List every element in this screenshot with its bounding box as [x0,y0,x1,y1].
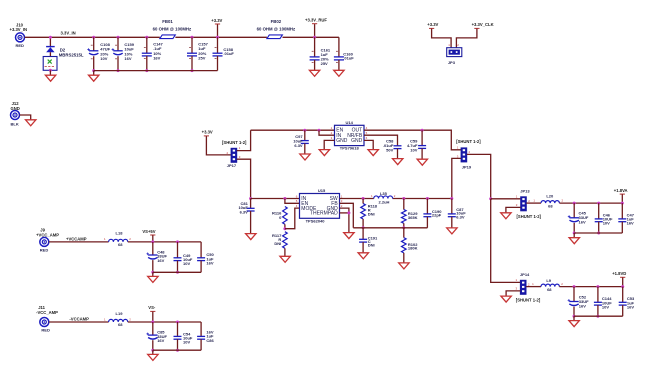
ground under C85 [152,350,154,354]
connector J12 GND [11,111,20,120]
ground at U14 left GND [319,150,329,156]
capacitor C54 10uF [176,321,179,324]
ground under C97 [300,154,310,160]
capacitor C144 10UF [596,285,599,288]
resistor R118 DNI [362,197,365,200]
svg-text:+3.3V: +3.3V [427,22,438,27]
svg-text:L35: L35 [380,191,388,196]
capacitor C45 33UF [573,202,576,205]
feedback rail [353,227,427,229]
wire U15 SW rail [340,198,374,200]
resistor R117 DNI [283,232,288,249]
jumper JP19 [SHUNT 1-2] [461,148,467,162]
ground under D2 [49,70,51,75]
svg-text:+3.3V: +3.3V [211,18,222,23]
capacitor C108 [92,36,95,39]
op IC U14 TPS79618 [335,125,365,145]
wire NR/FB to C58 [364,135,398,146]
ferrite bead FB02 60 OHM @ 100MHz [267,35,283,39]
capacitor C59 [421,129,424,132]
svg-text:6.3V: 6.3V [240,209,249,214]
svg-text:[SHUNT 1-2]: [SHUNT 1-2] [517,214,542,219]
capacitor C158 [216,36,219,39]
svg-text:10V: 10V [183,339,190,344]
capacitor C53 1uF [621,285,624,288]
svg-text:JP13: JP13 [520,188,530,193]
svg-text:+3.3V_RUF: +3.3V_RUF [305,18,327,23]
capacitor C161 [313,36,316,39]
wire -VCCAMP [49,321,109,323]
ground under R117 [280,256,290,262]
svg-text:16V: 16V [579,304,586,309]
svg-text:3.3V_IN: 3.3V_IN [61,31,76,36]
svg-text:[SHUNT 1-2]: [SHUNT 1-2] [456,139,481,144]
wire JP19 pin3 to output node [452,158,461,198]
svg-text:L20: L20 [546,194,554,199]
svg-text:L19: L19 [116,311,124,316]
wire +3.3V to JP3 pin1 [432,29,452,48]
jumper JP3 [447,48,462,57]
svg-text:16V: 16V [153,56,160,61]
wire JP19 pin2 to JP13/JP14 feed [467,154,491,198]
ground under C45 [573,233,575,238]
jumper JP14 [SHUNT 1-2] [520,280,526,294]
svg-text:16V: 16V [124,56,131,61]
capacitor C49 10uF [176,240,179,243]
capacitor C157 [191,36,194,39]
resistor R102 180K [403,228,405,238]
svg-text:50V: 50V [386,147,393,152]
wire +1.8VA rail [559,202,622,204]
capacitor C160 [338,37,340,57]
wire IN drop to U14 pin [318,129,321,132]
svg-text:DNI: DNI [368,243,375,248]
svg-text:BLK: BLK [11,122,19,127]
inductor L9 68 [541,284,559,287]
capacitor C87 output [450,197,453,200]
capacitor C81 [249,197,252,200]
svg-text:JP17: JP17 [227,163,237,168]
svg-text:[SHUNT 1-2]: [SHUNT 1-2] [222,140,247,145]
capacitor C86 1uF [200,322,202,336]
svg-text:GND: GND [11,106,20,111]
ferrite bead FB01 60 OHM @ 100MHz [160,35,176,39]
svg-text:.01uF: .01uF [223,51,234,56]
wire +3.3V to JP17 pin2 [206,136,231,155]
capacitor C85 33UF [151,321,154,324]
wire JP17 pin1 to EN rail [237,130,251,150]
svg-text:-VCCAMP: -VCCAMP [69,317,89,322]
capacitor C191 DNI [362,228,364,240]
resistor R129 365K [402,197,405,200]
svg-text:16V: 16V [157,258,164,263]
svg-text:C86: C86 [206,338,214,343]
ground at U15 GND [344,233,354,239]
wire MODE to divider [285,208,300,229]
capacitor C190 22pF [426,197,429,200]
wire main 3.3V_IN rail [25,36,160,38]
svg-text:JP14: JP14 [520,272,530,277]
svg-text:60 OHM @ 100MHz: 60 OHM @ 100MHz [257,27,296,32]
capacitor C50 1uF [200,242,202,258]
svg-text:U15: U15 [318,188,326,193]
wire IN rail to U15 [251,198,300,200]
capacitor C47 1uF [621,202,624,205]
connector J9 +VCC_AMP [40,237,49,246]
svg-text:RED: RED [16,43,25,48]
ground under C191 [358,253,368,259]
ground under C52 [573,316,575,320]
svg-text:68: 68 [547,287,552,292]
svg-text:JP3: JP3 [448,60,456,65]
svg-text:VS+5V: VS+5V [142,229,155,234]
ground at JP14 [501,296,511,302]
wire VS- rail [128,321,201,323]
wire J12 to ground [20,115,31,120]
bottom rail VS- filter [153,349,201,351]
svg-text:6.3V: 6.3V [456,215,465,220]
wire JP14 pin2 to L9 [526,286,541,288]
capacitor C147 [145,36,148,39]
inductor L20 68 [541,201,559,204]
bottom rail +1.8VA filter [574,232,622,234]
bottom rail +1.8VD filter [574,315,623,317]
svg-text:THERMPAD: THERMPAD [310,211,338,217]
svg-text:L9: L9 [546,278,551,283]
svg-text:16V: 16V [627,304,634,309]
ground under C87 [447,228,457,234]
wire U14 right GND to ground [364,140,373,149]
svg-text:TPS79618: TPS79618 [340,146,360,151]
svg-text:D2: D2 [60,47,66,52]
ground at J12 [26,120,36,126]
svg-text:MBRS2515L: MBRS2515L [59,53,84,58]
capacitor C46 10UF [597,202,600,205]
wire +3.3V_CLK to JP3 pin2 [456,29,477,48]
ground under R102 [399,263,409,269]
capacitor C48 33UF [151,240,154,243]
svg-text:10V: 10V [183,261,190,266]
svg-text:6.3V: 6.3V [294,143,303,148]
wire EN/IN rail to U14 [251,129,335,131]
svg-text:365K: 365K [408,215,418,220]
ground under C160 [334,70,344,76]
wire U15 FB to feedback rail [340,203,354,228]
capacitor C159 [117,36,120,39]
svg-text:25V: 25V [198,56,205,61]
jumper JP13 [SHUNT 1-2] [521,197,527,211]
wire long feed to JP14 [491,199,521,283]
bottom rail VS+5V filter [153,271,201,273]
svg-text:TPS62040: TPS62040 [306,218,326,223]
ground under C81 [246,234,256,240]
wire JP13 pin3 to ground [506,207,521,212]
svg-text:22pF: 22pF [432,213,442,218]
svg-text:16V: 16V [157,338,164,343]
svg-text:10V: 10V [410,147,417,152]
svg-text:VS-: VS- [148,305,156,310]
ground at JP13 [501,213,511,219]
svg-text:180K: 180K [408,246,418,251]
inductor L35 2.2uH [374,196,393,199]
svg-text:10V: 10V [603,221,610,226]
svg-text:GND: GND [351,138,363,144]
svg-text:+VCC_AMP: +VCC_AMP [36,233,59,238]
svg-text:FB01: FB01 [162,19,173,24]
wire JP14 pin3 to ground [506,291,520,296]
svg-text:RED: RED [40,247,49,252]
ground under C58 [393,159,403,165]
svg-text:16V: 16V [206,260,213,265]
svg-text:L18: L18 [116,231,124,236]
wire U14 OUT rail [364,130,461,150]
svg-text:DNI: DNI [368,211,375,216]
svg-text:[SHUNT 1-2]: [SHUNT 1-2] [516,298,541,303]
wire +VCCAMP [49,241,109,243]
inductor L18 68 [109,239,128,242]
capacitor C58 [394,145,402,147]
wire VS+5V rail [128,241,201,243]
svg-text:60 OHM @ 100MHz: 60 OHM @ 100MHz [153,27,192,32]
wire +1.8VD rail [559,286,622,288]
ground at U14 right GND [368,150,378,156]
capacitor C52 33UF [573,285,576,288]
svg-text:2.2uH: 2.2uH [379,199,390,204]
connector J10 +3.3V_IN [16,33,25,42]
svg-text:FB02: FB02 [271,19,282,24]
svg-text:68: 68 [118,322,123,327]
svg-text:GND: GND [336,138,348,144]
svg-text:DNI: DNI [274,241,281,246]
svg-text:JP19: JP19 [462,165,472,170]
ground under C59 [417,159,427,165]
connector J11 -VCC_AMP [40,318,49,327]
svg-text:+3.3V: +3.3V [202,130,213,135]
svg-text:.01uF: .01uF [343,55,354,60]
svg-text:16V: 16V [579,220,586,225]
resistor R116 0 [283,207,288,225]
wire feed junction to JP13 [489,197,492,200]
svg-text:25V: 25V [321,61,328,66]
wire JP17 pin3 down to U15 input [237,159,251,198]
svg-text:RED: RED [41,327,50,332]
ground under C161 [309,70,319,76]
svg-text:+3.3V_CLK: +3.3V_CLK [472,22,494,27]
wire EN tie to IN rail [283,197,286,200]
wire U14 left GND to ground [324,140,334,149]
bottom rail of input filter [94,70,218,72]
svg-text:+1.8VA: +1.8VA [614,188,628,193]
wire JP13 pin2 to L20 [526,202,541,204]
ground under C48 [152,272,154,276]
svg-text:10V: 10V [100,56,107,61]
svg-text:-VCC_AMP: -VCC_AMP [36,310,58,315]
capacitor C97 [303,129,306,132]
svg-text:+3.3V_IN: +3.3V_IN [10,27,28,32]
svg-text:16V: 16V [627,221,634,226]
buck IC U15 TPS62040 [300,194,340,219]
svg-text:68: 68 [548,204,553,209]
jumper JP17 [SHUNT 1-2] [231,148,237,162]
ground under C108 [93,71,95,76]
svg-text:+VCCAMP: +VCCAMP [66,236,87,241]
svg-text:10V: 10V [602,304,609,309]
inductor L19 68 [109,319,128,322]
diode D2 MBRS2515L [49,37,51,46]
wire U15 GND/THERMPAD to ground [340,208,349,233]
svg-text:+1.8VD: +1.8VD [612,271,626,276]
svg-text:U14: U14 [346,120,354,125]
svg-text:68: 68 [118,242,123,247]
